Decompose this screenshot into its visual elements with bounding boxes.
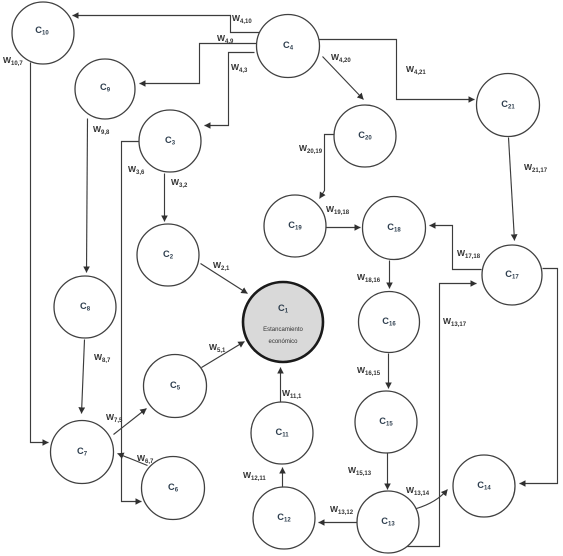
wire W20,19 C20 to C19	[320, 135, 335, 199]
svg-text:W18,16: W18,16	[357, 272, 381, 284]
node C13	[357, 491, 419, 553]
node C11	[251, 402, 313, 464]
wire W13,17 C13 to C17	[406, 284, 477, 547]
node C16	[359, 292, 420, 353]
svg-text:W9,8: W9,8	[93, 124, 110, 136]
wire W21,17 C21 to C17	[509, 138, 515, 241]
wire W16,15 C16 to C15	[388, 354, 390, 389]
node C2	[137, 224, 199, 286]
wire W12,11 C12 to C11	[282, 468, 284, 487]
wire W13,12 C13 to C12	[319, 522, 357, 524]
svg-text:W10,7: W10,7	[3, 55, 23, 67]
svg-text:W5,1: W5,1	[209, 342, 226, 354]
node C9	[75, 59, 135, 119]
node C6	[142, 457, 205, 520]
svg-text:W13,17: W13,17	[443, 316, 467, 328]
wire W10,7 C10 to C7	[31, 63, 49, 443]
svg-text:W15,13: W15,13	[348, 465, 372, 477]
wire W4,3 C4 to C3	[205, 53, 255, 126]
wire W4,9 C4 to C9	[140, 44, 259, 84]
svg-text:W4,10: W4,10	[232, 13, 252, 25]
svg-text:W17,18: W17,18	[457, 248, 481, 260]
node C20	[334, 105, 396, 167]
node C1 Estancamiento economico	[243, 282, 323, 362]
svg-text:W8,7: W8,7	[94, 352, 111, 364]
node C12	[253, 487, 315, 549]
svg-text:W2,1: W2,1	[213, 260, 230, 272]
svg-text:W11,1: W11,1	[282, 388, 302, 400]
wire W7,5 C7 to C5	[114, 409, 147, 435]
svg-text:W4,3: W4,3	[231, 62, 248, 74]
wire W4,20 C4 to C20	[323, 57, 364, 100]
wire W2,1 C2 to C1	[201, 264, 248, 294]
node C10	[12, 2, 74, 64]
wire W13,14 C13 to C14	[417, 490, 448, 509]
svg-text:W20,19: W20,19	[299, 143, 323, 155]
wire W17,18 C17 to C18	[430, 226, 482, 270]
wire W3,2 C3 to C2	[164, 174, 166, 222]
wire C17 to C14	[520, 269, 558, 484]
node C18	[363, 197, 426, 260]
svg-text:W6,7: W6,7	[137, 453, 154, 465]
wire W3,6 C3 to C6	[122, 142, 142, 502]
node C5	[144, 355, 207, 418]
svg-text:W12,11: W12,11	[243, 470, 266, 482]
svg-text:W3,6: W3,6	[128, 164, 145, 176]
svg-text:W16,15: W16,15	[357, 365, 381, 377]
node C17	[482, 245, 542, 305]
svg-text:económico: económico	[268, 339, 298, 345]
svg-text:W3,2: W3,2	[171, 177, 188, 189]
node C3	[139, 110, 201, 172]
svg-text:W4,21: W4,21	[406, 64, 426, 76]
svg-text:W21,17: W21,17	[524, 162, 548, 174]
wire W15,13 C15 to C13	[387, 454, 389, 490]
wire W4,21 C4 to C21	[320, 40, 475, 100]
wire W4,10 C4 to C10	[73, 16, 260, 33]
node C4	[257, 15, 320, 78]
wire W5,1 C5 to C1	[202, 342, 245, 368]
node C19	[264, 195, 326, 257]
node C8	[54, 276, 116, 338]
wire W6,7 C6 to C7	[118, 454, 148, 466]
wire W11,1 C11 to C1	[280, 368, 282, 402]
node C21	[477, 74, 540, 137]
node C15	[355, 391, 417, 453]
svg-text:W19,18: W19,18	[326, 204, 350, 216]
wire W18,16 C18 to C16	[389, 261, 391, 289]
node C7	[51, 421, 114, 484]
svg-text:Estancamiento: Estancamiento	[263, 327, 303, 333]
wire W9,8 C9 to C8	[87, 119, 88, 273]
wire W19,18 C19 to C18	[327, 227, 361, 229]
wire W8,7 C8 to C7	[82, 340, 85, 414]
svg-text:W13,14: W13,14	[406, 485, 430, 497]
svg-text:W7,5: W7,5	[106, 412, 123, 424]
svg-text:W4,20: W4,20	[331, 52, 351, 64]
svg-text:W13,12: W13,12	[330, 504, 354, 516]
node C14	[453, 455, 515, 517]
